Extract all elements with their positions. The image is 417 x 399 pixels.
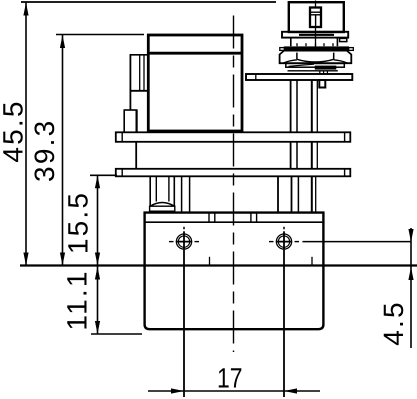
stem line 1 <box>181 176 183 211</box>
valve body <box>145 213 324 330</box>
small tab below top plate <box>319 80 325 88</box>
dimension 17 right extension line <box>283 250 285 397</box>
neck right <box>336 38 338 47</box>
coil foot box left <box>123 110 125 132</box>
coil foot box top <box>124 109 138 111</box>
washer plate 2 dark bar <box>284 46 349 50</box>
hex nut facet left <box>296 53 298 60</box>
armature tube outer left <box>149 176 151 206</box>
dimension 17 arrow left <box>284 388 297 393</box>
svg-text:4.5: 4.5 <box>378 300 409 346</box>
flange under nut <box>286 63 345 67</box>
upper plate left cap divider <box>121 132 123 142</box>
left screw vertical dash above <box>183 227 185 230</box>
lower mounting plate <box>116 169 350 177</box>
dimension 45.5 arrow up <box>23 3 28 16</box>
dimension 11.1 line <box>97 266 99 334</box>
band divider 1 <box>208 213 210 223</box>
upper mounting plate <box>116 132 350 142</box>
left screw side dashes <box>169 241 174 243</box>
connector centerline <box>315 1 317 9</box>
lower plate right cap divider <box>344 169 346 177</box>
left screw cross horizontal <box>176 241 192 243</box>
flange diagonal <box>289 64 315 66</box>
flange dark bar <box>315 66 337 70</box>
hex nut facet right <box>333 53 335 60</box>
hex nut right arc <box>334 60 348 63</box>
dimension 11.1 bottom extension line <box>91 333 142 335</box>
right screw vertical dash above <box>283 227 285 230</box>
dimension 45.5 top extension line <box>21 1 276 3</box>
hex nut center arc <box>297 59 334 62</box>
armature tube outer right <box>173 176 175 206</box>
dimension 17 arrow right <box>171 388 184 393</box>
pin inner line 2 <box>310 14 321 16</box>
hex nut outline <box>280 51 352 64</box>
svg-text:17: 17 <box>217 363 243 394</box>
dimension 39.3 arrow up <box>60 35 65 48</box>
dimension 39.3 arrow down <box>60 253 65 266</box>
band divider 3 <box>250 213 252 223</box>
right screw cross vertical <box>283 231 285 249</box>
main vertical centerline <box>233 16 235 353</box>
right screw inner circle <box>278 236 289 247</box>
right screw line to 4.5 dim <box>303 241 412 243</box>
hex nut left arc <box>283 60 297 63</box>
washer plate 1 dark bar <box>299 34 334 36</box>
washer plate 2 right end square <box>349 48 354 51</box>
dimension 17 left extension line <box>183 250 185 397</box>
coil terminal inner line 1 <box>139 56 141 91</box>
connector pin <box>310 8 321 28</box>
svg-text:11.1: 11.1 <box>62 269 93 330</box>
band divider 2 <box>214 213 216 223</box>
dimension 39.3 line <box>62 35 64 266</box>
thread ticks <box>296 43 298 46</box>
body tick left <box>209 257 211 265</box>
dimension 4.5 arrow up <box>408 267 413 280</box>
coil terminal left side <box>129 54 131 110</box>
washer plate 1 <box>282 32 348 38</box>
dimension 11.1 arrow down <box>95 321 100 334</box>
dimension 15.5 line <box>97 175 99 265</box>
dimension 4.5 line (right) <box>410 228 412 348</box>
dimension 15.5 arrow down <box>95 253 100 266</box>
stem line 2 <box>189 176 191 211</box>
lower plate left cap divider <box>121 169 123 177</box>
dimension 17 line (bottom) <box>148 390 320 392</box>
armature tube inner right <box>168 176 170 201</box>
rod lines below lower plate <box>277 176 279 211</box>
left screw cross vertical <box>183 231 185 249</box>
svg-text:45.5: 45.5 <box>0 99 29 162</box>
top mounting plate <box>246 74 352 80</box>
band divider 4 <box>256 213 258 223</box>
coil terminal mid shelf <box>131 90 149 92</box>
connector block <box>289 2 344 32</box>
flange teeth <box>319 71 321 74</box>
flange lower line <box>288 70 338 72</box>
coil cap separation line <box>148 52 242 55</box>
dimension 45.5 arrow down <box>23 253 28 266</box>
right screw side dashes <box>269 241 274 243</box>
washer plate 2 left end square <box>280 48 285 51</box>
dimension 39.3 top extension line <box>56 34 144 36</box>
left leg between plates <box>135 142 137 169</box>
right screw outer circle <box>276 234 291 249</box>
pin inner line 1 <box>310 11 321 13</box>
shared bottom extension line y=265.5 <box>20 264 417 266</box>
coil terminal inner line 2 <box>143 56 145 91</box>
right screw cross horizontal <box>276 241 292 243</box>
svg-text:15.5: 15.5 <box>63 191 94 254</box>
armature dome <box>151 203 175 207</box>
body tick right <box>311 257 313 265</box>
left screw inner circle <box>178 236 189 247</box>
dimension 4.5 arrow down <box>408 229 413 242</box>
body top band line <box>145 221 324 223</box>
neck right notch <box>340 38 347 41</box>
coil terminal top <box>130 54 149 56</box>
neck left <box>290 38 292 47</box>
armature tube inner left <box>155 176 157 201</box>
coil foot box right <box>136 110 138 132</box>
upper plate right cap divider <box>344 132 346 142</box>
armature base band <box>150 206 175 211</box>
dimension 15.5 top extension line <box>90 174 117 176</box>
rod lines above upper plate <box>290 80 292 133</box>
rod lines between plates <box>290 142 292 169</box>
dimension 45.5 line <box>25 3 27 266</box>
coil body <box>148 35 242 131</box>
dimension 11.1 arrow up <box>95 267 100 280</box>
pin inner vertical <box>315 15 317 26</box>
top plate left step <box>255 74 257 80</box>
left screw outer circle <box>176 234 191 249</box>
svg-text:39.3: 39.3 <box>29 119 60 182</box>
dimension 15.5 arrow up <box>95 175 100 188</box>
